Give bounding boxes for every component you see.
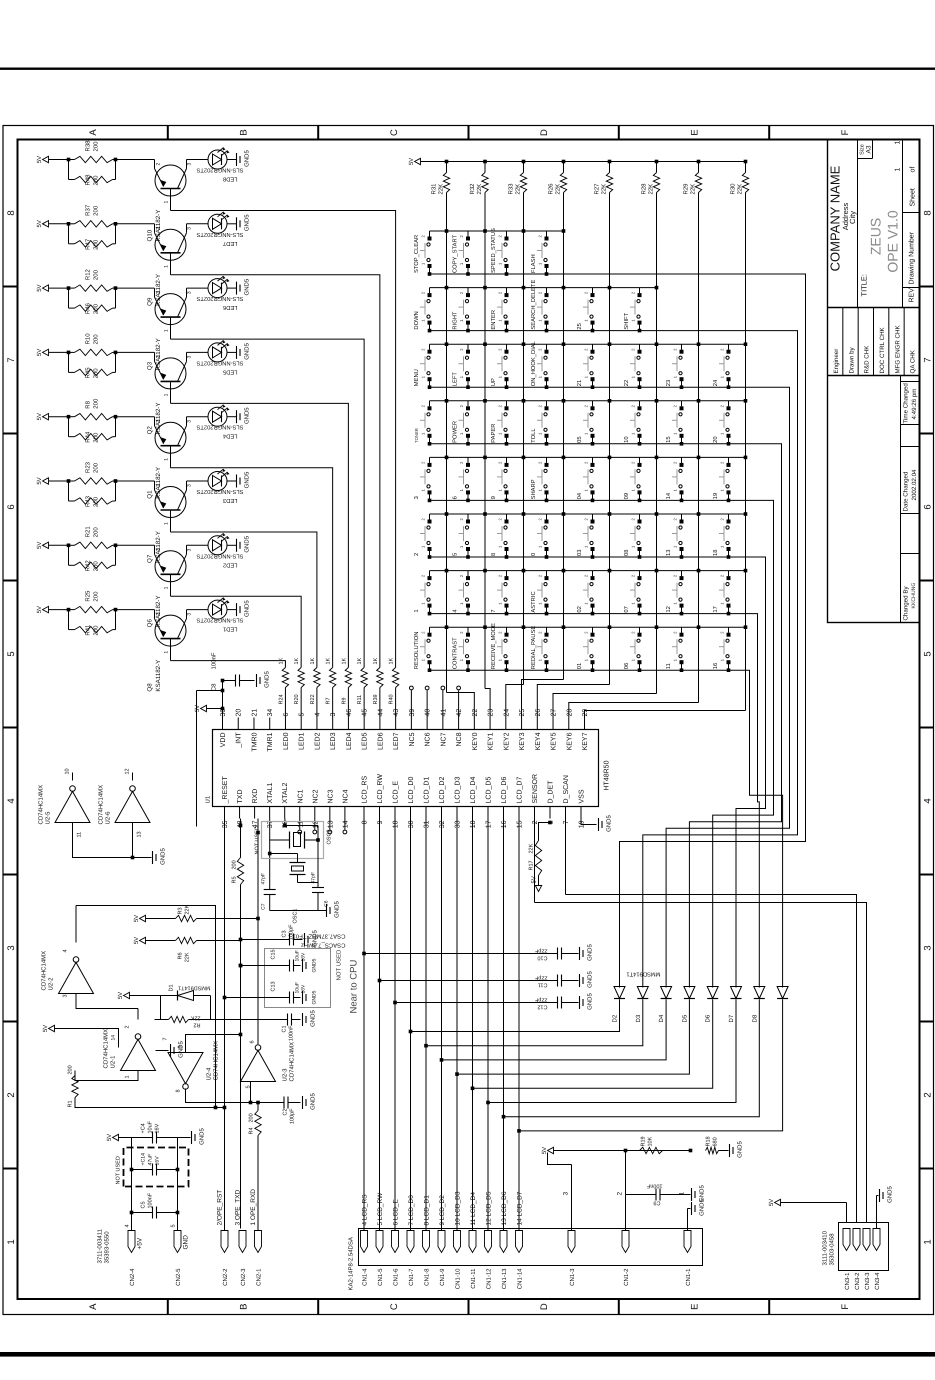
- svg-text:SLS-NNGR202TS: SLS-NNGR202TS: [196, 424, 243, 431]
- svg-text:LED0: LED0: [283, 732, 290, 750]
- svg-text:22pF: 22pF: [534, 997, 547, 1003]
- svg-text:KEY6: KEY6: [566, 732, 573, 750]
- svg-text:Engineer: Engineer: [833, 349, 840, 374]
- LED LED1 SLS-NNGR202TS: [187, 609, 209, 611]
- svg-text:23: 23: [488, 709, 495, 717]
- svg-text:8: 8: [490, 553, 497, 556]
- switch 5: [467, 549, 469, 557]
- svg-text:15: 15: [517, 820, 524, 828]
- connector pin CN1-6: [392, 1231, 399, 1253]
- svg-text:PAPER: PAPER: [491, 424, 497, 443]
- svg-text:200: 200: [93, 205, 100, 216]
- svg-text:04: 04: [576, 492, 583, 499]
- svg-text:Q8: Q8: [147, 683, 154, 692]
- svg-text:1: 1: [164, 265, 170, 268]
- svg-text:SLS-NNGR202TS: SLS-NNGR202TS: [196, 488, 243, 495]
- resistor R45 200: [68, 352, 70, 372]
- connector pin CN1-13: [500, 1231, 507, 1253]
- svg-text:TMR0: TMR0: [251, 732, 258, 751]
- svg-text:CD74HC14MX: CD74HC14MX: [213, 1041, 220, 1081]
- inverter U2-2 CD74HC14MX: [59, 962, 94, 993]
- svg-text:2: 2: [156, 548, 162, 551]
- svg-text:SLS-NNGR202TS: SLS-NNGR202TS: [196, 167, 243, 174]
- svg-text:7: 7: [163, 1037, 169, 1040]
- svg-text:30: 30: [408, 820, 415, 828]
- svg-text:CN1-1: CN1-1: [685, 1268, 692, 1286]
- diode D6 MMSD914T1: [707, 987, 718, 999]
- switch 04: [592, 492, 594, 500]
- svg-text:LCD_RS: LCD_RS: [362, 776, 369, 804]
- svg-text:1: 1: [164, 329, 170, 332]
- svg-text:KEY4: KEY4: [535, 732, 542, 750]
- wire key row 8 top rail: [430, 626, 746, 628]
- svg-text:4: 4: [125, 1224, 131, 1227]
- svg-text:GND5: GND5: [160, 848, 167, 865]
- svg-text:R2: R2: [193, 1022, 200, 1028]
- svg-text:CD74HC14MX: CD74HC14MX: [38, 785, 45, 825]
- svg-text:8: 8: [6, 210, 17, 215]
- svg-text:LCD_RW: LCD_RW: [377, 774, 384, 804]
- svg-text:ON_HOOK_DIAL: ON_HOOK_DIAL: [530, 340, 537, 386]
- svg-text:1: 1: [164, 651, 170, 654]
- svg-text:4: 4: [923, 798, 934, 803]
- svg-text:7: 7: [491, 609, 497, 612]
- svg-text:NC2: NC2: [312, 789, 319, 803]
- svg-text:TONER: TONER: [414, 428, 419, 443]
- svg-text:07: 07: [623, 606, 630, 612]
- svg-text:1K: 1K: [326, 657, 332, 664]
- svg-text:680: 680: [713, 1137, 719, 1146]
- resistor R21 200: [69, 544, 75, 546]
- wire base rail Q3: [171, 339, 365, 667]
- resistor R46 200: [68, 288, 70, 308]
- LED LED7 SLS-NNGR202TS: [187, 223, 209, 225]
- svg-text:13: 13: [137, 831, 143, 837]
- svg-text:3111-003410: 3111-003410: [822, 1230, 829, 1265]
- svg-text:LED5: LED5: [362, 732, 369, 750]
- svg-text:LED6: LED6: [377, 732, 384, 750]
- svg-text:Drawn by: Drawn by: [848, 346, 855, 373]
- svg-text:R11: R11: [357, 695, 363, 705]
- svg-text:KSA1182-Y: KSA1182-Y: [155, 660, 162, 692]
- svg-text:Sheet: Sheet: [909, 188, 917, 206]
- svg-text:C: C: [389, 129, 400, 136]
- svg-text:C3: C3: [282, 931, 288, 938]
- resistor R31 22K: [443, 173, 449, 193]
- resistor R17 22K: [535, 886, 541, 892]
- wire key row 2 top rail: [430, 287, 657, 289]
- wire key row 3: [430, 387, 790, 987]
- svg-text:NC8: NC8: [456, 732, 463, 746]
- svg-text:GND5: GND5: [587, 971, 594, 988]
- svg-text:NC5: NC5: [409, 732, 416, 746]
- svg-text:C8: C8: [211, 683, 218, 691]
- svg-text:0: 0: [530, 553, 537, 556]
- 5V supply arrow driver 3: [43, 285, 49, 291]
- 5V supply arrow U2-1: [49, 1025, 55, 1031]
- switch STOP_CLEAR: [429, 266, 431, 274]
- wire XTAL1: [269, 819, 271, 890]
- svg-text:Near to CPU: Near to CPU: [349, 960, 360, 1014]
- switch 19: [728, 492, 730, 500]
- svg-text:20: 20: [712, 436, 719, 442]
- svg-text:3: 3: [187, 484, 193, 487]
- svg-text:6: 6: [250, 1040, 256, 1043]
- svg-text:5V: 5V: [133, 937, 140, 944]
- svg-text:R1: R1: [68, 1101, 74, 1108]
- svg-text:200: 200: [249, 1113, 255, 1122]
- svg-text:8: 8: [923, 210, 934, 215]
- diode D2 MMSD914T1: [614, 987, 625, 999]
- svg-text:LED1: LED1: [299, 732, 306, 750]
- svg-text:R29: R29: [683, 183, 690, 195]
- switch 10: [639, 436, 641, 444]
- ground GND5 C9: [691, 1188, 693, 1201]
- svg-text:A: A: [88, 129, 99, 136]
- svg-text:8 LCD_D1: 8 LCD_D1: [424, 1195, 431, 1226]
- svg-text:22K: 22K: [690, 184, 697, 195]
- switch 20: [728, 436, 730, 444]
- capacitor C12 22pF: [393, 1001, 397, 1005]
- wire key column 1: [446, 193, 448, 693]
- ground GND5 driver 2: [227, 223, 237, 225]
- svg-text:KEY7: KEY7: [582, 732, 589, 750]
- wire base rail Q7: [171, 532, 317, 668]
- ground GND5 VSS: [581, 819, 597, 825]
- svg-text:5V: 5V: [541, 1147, 548, 1154]
- switch ASTRIC: [546, 606, 548, 614]
- svg-text:5: 5: [299, 713, 306, 717]
- svg-text:R47: R47: [85, 238, 92, 250]
- svg-text:33: 33: [455, 820, 462, 828]
- svg-text:2: 2: [156, 291, 162, 294]
- svg-text:D_DET: D_DET: [548, 780, 555, 804]
- svg-text:11: 11: [666, 663, 672, 669]
- svg-text:47pF: 47pF: [261, 873, 267, 884]
- svg-text:U2-2: U2-2: [48, 977, 55, 991]
- svg-text:CN1-2: CN1-2: [623, 1268, 630, 1286]
- switch 13: [681, 549, 683, 557]
- svg-text:RECEIVE_MODE: RECEIVE_MODE: [490, 623, 497, 669]
- svg-text:D8: D8: [751, 1014, 758, 1022]
- ground GND5 R18: [719, 1150, 729, 1152]
- svg-text:4: 4: [314, 713, 321, 717]
- wire CN1-3 net: [571, 1165, 573, 1231]
- svg-text:22pF: 22pF: [534, 948, 547, 954]
- svg-text:1K: 1K: [310, 657, 316, 664]
- 5V supply arrow CN3: [775, 1199, 781, 1205]
- svg-text:MENU: MENU: [414, 369, 420, 386]
- svg-text:06: 06: [623, 663, 630, 669]
- svg-text:7: 7: [563, 820, 570, 824]
- svg-text:CN1-6: CN1-6: [393, 1268, 400, 1286]
- svg-text:22K: 22K: [648, 184, 655, 195]
- switch 16: [728, 662, 730, 670]
- svg-text:7 LCD_D0: 7 LCD_D0: [408, 1195, 415, 1226]
- svg-text:5V: 5V: [36, 349, 43, 356]
- svg-text:GND5: GND5: [310, 1010, 317, 1027]
- svg-text:GND5: GND5: [606, 815, 613, 832]
- svg-text:CN1-12: CN1-12: [486, 1268, 493, 1289]
- wire XTAL2: [284, 819, 286, 826]
- switch 06: [639, 662, 641, 670]
- svg-text:Q3: Q3: [147, 361, 154, 370]
- connector pin CN1-2: [622, 1231, 629, 1253]
- svg-text:47uF: 47uF: [148, 1154, 154, 1166]
- capacitor C5 100nF: [132, 1212, 153, 1214]
- transistor Q8 KSA1182-Y: [116, 609, 155, 611]
- svg-text:1: 1: [414, 609, 420, 612]
- svg-text:LCD_D2: LCD_D2: [439, 777, 446, 804]
- resistor R27 22K: [606, 173, 612, 193]
- svg-text:RXD: RXD: [252, 789, 259, 804]
- svg-text:GND5: GND5: [264, 671, 271, 688]
- svg-text:R28: R28: [641, 183, 648, 195]
- svg-text:GND: GND: [183, 1235, 190, 1250]
- transistor Q1 KSA1182-Y: [116, 416, 155, 418]
- inverter U2-6 CD74HC14MX: [115, 791, 150, 822]
- 5V supply arrow D1: [130, 995, 161, 997]
- svg-text:R45: R45: [85, 367, 92, 379]
- svg-text:LED5: LED5: [223, 368, 238, 374]
- title block grid: [828, 140, 920, 623]
- resistor R42 200: [68, 545, 70, 565]
- svg-text:10uF: 10uF: [148, 1120, 154, 1133]
- svg-text:City: City: [848, 211, 857, 224]
- svg-text:REV: REV: [909, 288, 916, 303]
- svg-text:14: 14: [111, 1035, 117, 1041]
- svg-text:16: 16: [501, 820, 508, 828]
- svg-text:B: B: [239, 1304, 250, 1310]
- svg-text:31: 31: [424, 820, 431, 828]
- capacitor C3 100pF: [241, 939, 281, 941]
- resistor R12 200: [69, 287, 75, 289]
- connector pin CN2-3: [239, 1231, 246, 1253]
- svg-text:2: 2: [156, 613, 162, 616]
- svg-text:Q1: Q1: [147, 490, 154, 499]
- svg-text:CN1-4: CN1-4: [362, 1268, 369, 1286]
- svg-text:LCD_E: LCD_E: [393, 781, 400, 804]
- wire LCD_D6: [503, 819, 505, 1231]
- svg-text:5V: 5V: [36, 156, 43, 163]
- wire VDD feed: [196, 691, 198, 827]
- svg-text:CN2-5: CN2-5: [175, 1268, 182, 1286]
- svg-text:U2-5: U2-5: [45, 811, 52, 825]
- svg-text:5V: 5V: [768, 1199, 775, 1206]
- svg-text:CN3-1: CN3-1: [844, 1272, 851, 1290]
- svg-text:100pF: 100pF: [290, 1108, 296, 1124]
- switch 3: [429, 492, 431, 500]
- svg-text:FLASH: FLASH: [530, 254, 537, 273]
- svg-text:42: 42: [456, 709, 463, 717]
- connector pin CN1-4: [361, 1231, 368, 1253]
- svg-text:NOT USED: NOT USED: [255, 826, 261, 854]
- svg-text:200: 200: [93, 527, 100, 538]
- wire LCD_D5: [487, 819, 489, 1231]
- svg-text:CN1-7: CN1-7: [408, 1268, 415, 1286]
- resistor R26 22K: [560, 173, 566, 193]
- svg-text:24: 24: [712, 379, 719, 386]
- svg-text:D: D: [539, 1303, 550, 1310]
- connector pin CN2-2: [221, 1231, 228, 1253]
- svg-text:GND5: GND5: [887, 1186, 894, 1203]
- svg-text:16V: 16V: [155, 1123, 161, 1133]
- resistor R11 1K: [361, 668, 367, 688]
- svg-text:GND5: GND5: [244, 214, 251, 231]
- switch 08: [639, 549, 641, 557]
- svg-text:39: 39: [409, 709, 416, 717]
- switch POWER: [467, 436, 469, 444]
- switch 09: [639, 492, 641, 500]
- svg-text:1: 1: [923, 1239, 934, 1244]
- svg-text:SLS-NNGR202TS: SLS-NNGR202TS: [196, 231, 243, 238]
- svg-text:R12: R12: [85, 268, 92, 280]
- svg-text:CD74HC14MX: CD74HC14MX: [41, 951, 48, 991]
- svg-text:5V: 5V: [36, 284, 43, 291]
- ground GND5 driver 8: [227, 609, 237, 611]
- svg-text:3: 3: [187, 355, 193, 358]
- wire CN1-2 net: [625, 1151, 627, 1231]
- svg-text:5V: 5V: [36, 413, 43, 420]
- svg-text:SEARCH_DELETE: SEARCH_DELETE: [530, 280, 537, 330]
- svg-text:CONTRAST: CONTRAST: [452, 637, 459, 669]
- ground GND5 OSC: [270, 910, 327, 912]
- svg-text:10: 10: [393, 820, 400, 828]
- ground GND5 C1: [302, 1013, 304, 1026]
- wire key column 7: [698, 193, 700, 703]
- svg-text:10K: 10K: [648, 1136, 654, 1146]
- LED LED2 SLS-NNGR202TS: [187, 544, 209, 546]
- svg-text:R10: R10: [85, 333, 92, 345]
- ground GND5 C13: [302, 991, 304, 1004]
- svg-text:RESOLUTION: RESOLUTION: [413, 632, 420, 670]
- svg-text:+C14: +C14: [141, 1153, 147, 1166]
- capacitor C7 47pF: [264, 889, 276, 891]
- svg-text:05: 05: [576, 436, 583, 442]
- svg-text:R3: R3: [178, 907, 184, 914]
- svg-text:F: F: [840, 1304, 851, 1310]
- svg-text:R18: R18: [706, 1136, 712, 1146]
- svg-text:D6: D6: [705, 1014, 712, 1022]
- svg-text:17: 17: [486, 820, 493, 828]
- wire key column 4: [563, 193, 565, 680]
- switch 8: [506, 549, 508, 557]
- svg-text:1K: 1K: [357, 657, 363, 664]
- 5V supply arrow CN2-4: [131, 1138, 133, 1231]
- svg-text:GND5: GND5: [244, 407, 251, 424]
- svg-text:200: 200: [93, 141, 100, 152]
- svg-text:CN1-11: CN1-11: [470, 1268, 477, 1289]
- ground GND5 C3: [304, 933, 306, 946]
- svg-text:SLS-NNGR202TS: SLS-NNGR202TS: [196, 617, 243, 624]
- svg-text:LCD_D6: LCD_D6: [501, 777, 508, 804]
- switch 2: [429, 549, 431, 557]
- ground GND5 C12: [579, 996, 581, 1009]
- svg-text:NC1: NC1: [297, 789, 304, 803]
- inverter U2-5 CD74HC14MX: [55, 791, 90, 822]
- svg-text:45: 45: [362, 709, 369, 717]
- U1 left-side pins: [224, 807, 226, 819]
- connector pin CN1-8: [423, 1231, 430, 1253]
- svg-text:R9: R9: [341, 697, 347, 704]
- svg-text:SPEED_STATUS: SPEED_STATUS: [490, 228, 497, 273]
- resistor R48 200: [68, 160, 70, 180]
- resistor R40 1K: [392, 668, 398, 688]
- svg-text:2: 2: [125, 1025, 131, 1028]
- svg-text:NOT USED: NOT USED: [116, 1156, 122, 1184]
- svg-text:100nF: 100nF: [148, 1192, 154, 1208]
- capacitor C15 10uF: [265, 949, 331, 1008]
- svg-text:_INT: _INT: [236, 732, 243, 749]
- switch 1: [429, 606, 431, 614]
- svg-text:MMSD914T1: MMSD914T1: [178, 985, 210, 991]
- svg-text:F: F: [840, 129, 851, 135]
- svg-text:3: 3: [187, 548, 193, 551]
- svg-text:CN1-13: CN1-13: [501, 1268, 508, 1289]
- resistor R8 200: [69, 416, 75, 418]
- svg-text:D2: D2: [612, 1014, 619, 1022]
- connector pin CN1-5: [376, 1231, 383, 1253]
- svg-text:200: 200: [93, 398, 100, 409]
- switch TONER: [429, 436, 431, 444]
- svg-text:Q6: Q6: [147, 618, 154, 627]
- svg-text:VSS: VSS: [579, 789, 586, 803]
- svg-text:29: 29: [582, 709, 589, 717]
- wire CN2-5 gnd rail: [177, 1138, 179, 1231]
- zone column ticks 1-8: [3, 1168, 18, 1170]
- wire key row 3 top rail: [430, 343, 746, 345]
- connector pin CN1-10: [454, 1231, 461, 1253]
- resistor R1 200: [72, 1076, 78, 1098]
- svg-text:11: 11: [77, 832, 83, 838]
- svg-text:1: 1: [125, 1075, 131, 1078]
- svg-text:16V: 16V: [155, 1156, 161, 1166]
- wire LCD_D7: [518, 819, 520, 1231]
- page bottom bar: [0, 1352, 935, 1357]
- svg-text:KEY1: KEY1: [488, 732, 495, 750]
- svg-text:12 LCD_D5: 12 LCD_D5: [486, 1191, 493, 1225]
- wire base rail Q2: [171, 403, 349, 667]
- connector pin CN2-4: [128, 1231, 135, 1253]
- svg-text:3: 3: [63, 994, 69, 997]
- wire SENSOR net: [534, 819, 536, 903]
- svg-text:200: 200: [93, 269, 100, 280]
- wire key row 4 top rail: [430, 400, 746, 402]
- svg-text:R24: R24: [278, 694, 284, 704]
- transistor Q10 KSA1182-Y: [116, 159, 155, 161]
- capacitor C4 10uF 16V: [132, 1137, 153, 1139]
- connector pin CN1-7: [407, 1231, 414, 1253]
- svg-text:R48: R48: [85, 174, 92, 186]
- svg-text:100nF: 100nF: [646, 1183, 662, 1189]
- U1 right-side pins: [222, 718, 224, 730]
- svg-text:LED6: LED6: [223, 304, 238, 311]
- resistor R25 200: [69, 609, 75, 611]
- svg-text:10: 10: [65, 768, 71, 774]
- svg-text:CD74HC14MX: CD74HC14MX: [289, 1042, 296, 1082]
- wire key column 3: [523, 193, 525, 685]
- svg-text:CN2-4: CN2-4: [129, 1268, 136, 1286]
- svg-text:22K: 22K: [737, 184, 744, 195]
- svg-text:LCD_D4: LCD_D4: [470, 777, 477, 804]
- svg-text:LED8: LED8: [223, 176, 238, 183]
- svg-text:5 LCD_RW: 5 LCD_RW: [377, 1192, 384, 1226]
- svg-text:QA CHK: QA CHK: [910, 349, 917, 373]
- LED LED5 SLS-NNGR202TS: [187, 351, 209, 353]
- svg-text:R37: R37: [85, 204, 92, 216]
- svg-text:LED2: LED2: [223, 561, 238, 568]
- svg-text:C15: C15: [271, 949, 277, 959]
